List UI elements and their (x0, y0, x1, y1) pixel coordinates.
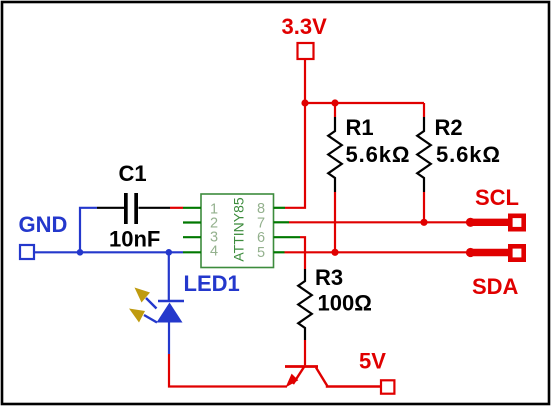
node junction LED branch (166, 249, 173, 256)
pin 7 stub (274, 221, 290, 223)
node junction R1 bottom on SDA (331, 249, 338, 256)
LED1 (157, 252, 240, 354)
GND terminal (19, 212, 68, 259)
node junction cap branch (77, 249, 84, 256)
svg-text:5.6kΩ: 5.6kΩ (346, 142, 411, 167)
wire LED cathode to emitter (169, 354, 287, 387)
wire pin5 SDA (285, 251, 469, 253)
LED arrow lower (129, 309, 157, 323)
svg-text:7: 7 (257, 215, 265, 231)
wire 3.3V rail to R1 R2 (305, 102, 424, 104)
pin 3 stub (183, 236, 201, 238)
pin 1 stub (183, 207, 201, 209)
wire pin6 to R3 (300, 237, 305, 269)
transistor Q1 (285, 367, 380, 388)
svg-text:4: 4 (210, 243, 218, 259)
svg-text:C1: C1 (119, 161, 147, 186)
pin 6 stub (274, 236, 301, 238)
svg-text:100Ω: 100Ω (318, 291, 372, 316)
wire pin7 SCL (289, 221, 468, 223)
node junction 3.3V rail (301, 99, 308, 106)
svg-text:R2: R2 (435, 115, 463, 140)
svg-text:5: 5 (257, 245, 265, 261)
svg-text:GND: GND (19, 212, 68, 237)
pin 5 stub (274, 251, 285, 253)
wire R3 to transistor base (304, 340, 306, 365)
wire GND horizontal (34, 251, 183, 253)
5V terminal (359, 349, 394, 394)
node junction R1 top (331, 99, 338, 106)
svg-text:SCL: SCL (475, 185, 519, 210)
svg-text:3.3V: 3.3V (282, 14, 328, 39)
IC U1 ATTINY85 (201, 194, 274, 268)
resistor R1 (328, 103, 410, 252)
svg-text:ATTINY85: ATTINY85 (231, 197, 247, 262)
wire pin1 red segment (170, 207, 183, 209)
pin 2 stub (183, 221, 201, 223)
node junction R2 bottom on SCL (420, 219, 427, 226)
svg-text:R3: R3 (315, 265, 343, 290)
3.3V supply terminal (282, 14, 328, 59)
svg-text:5V: 5V (359, 349, 386, 374)
svg-text:6: 6 (257, 230, 265, 246)
pin 8 stub (274, 207, 286, 209)
LED arrow upper (135, 288, 157, 309)
svg-text:SDA: SDA (472, 274, 519, 299)
resistor R3 (298, 265, 372, 340)
pin 4 stub (183, 251, 201, 253)
svg-text:LED1: LED1 (184, 271, 240, 296)
resistor R2 (417, 103, 501, 222)
svg-text:R1: R1 (346, 115, 374, 140)
wire 3.3V vertical to pin8 row (285, 59, 305, 208)
SCL terminal (466, 185, 524, 229)
svg-text:10nF: 10nF (109, 227, 160, 252)
capacitor C1 (97, 161, 170, 252)
wire GND to capacitor (80, 208, 97, 253)
SDA terminal (466, 246, 524, 299)
svg-text:5.6kΩ: 5.6kΩ (436, 142, 501, 167)
